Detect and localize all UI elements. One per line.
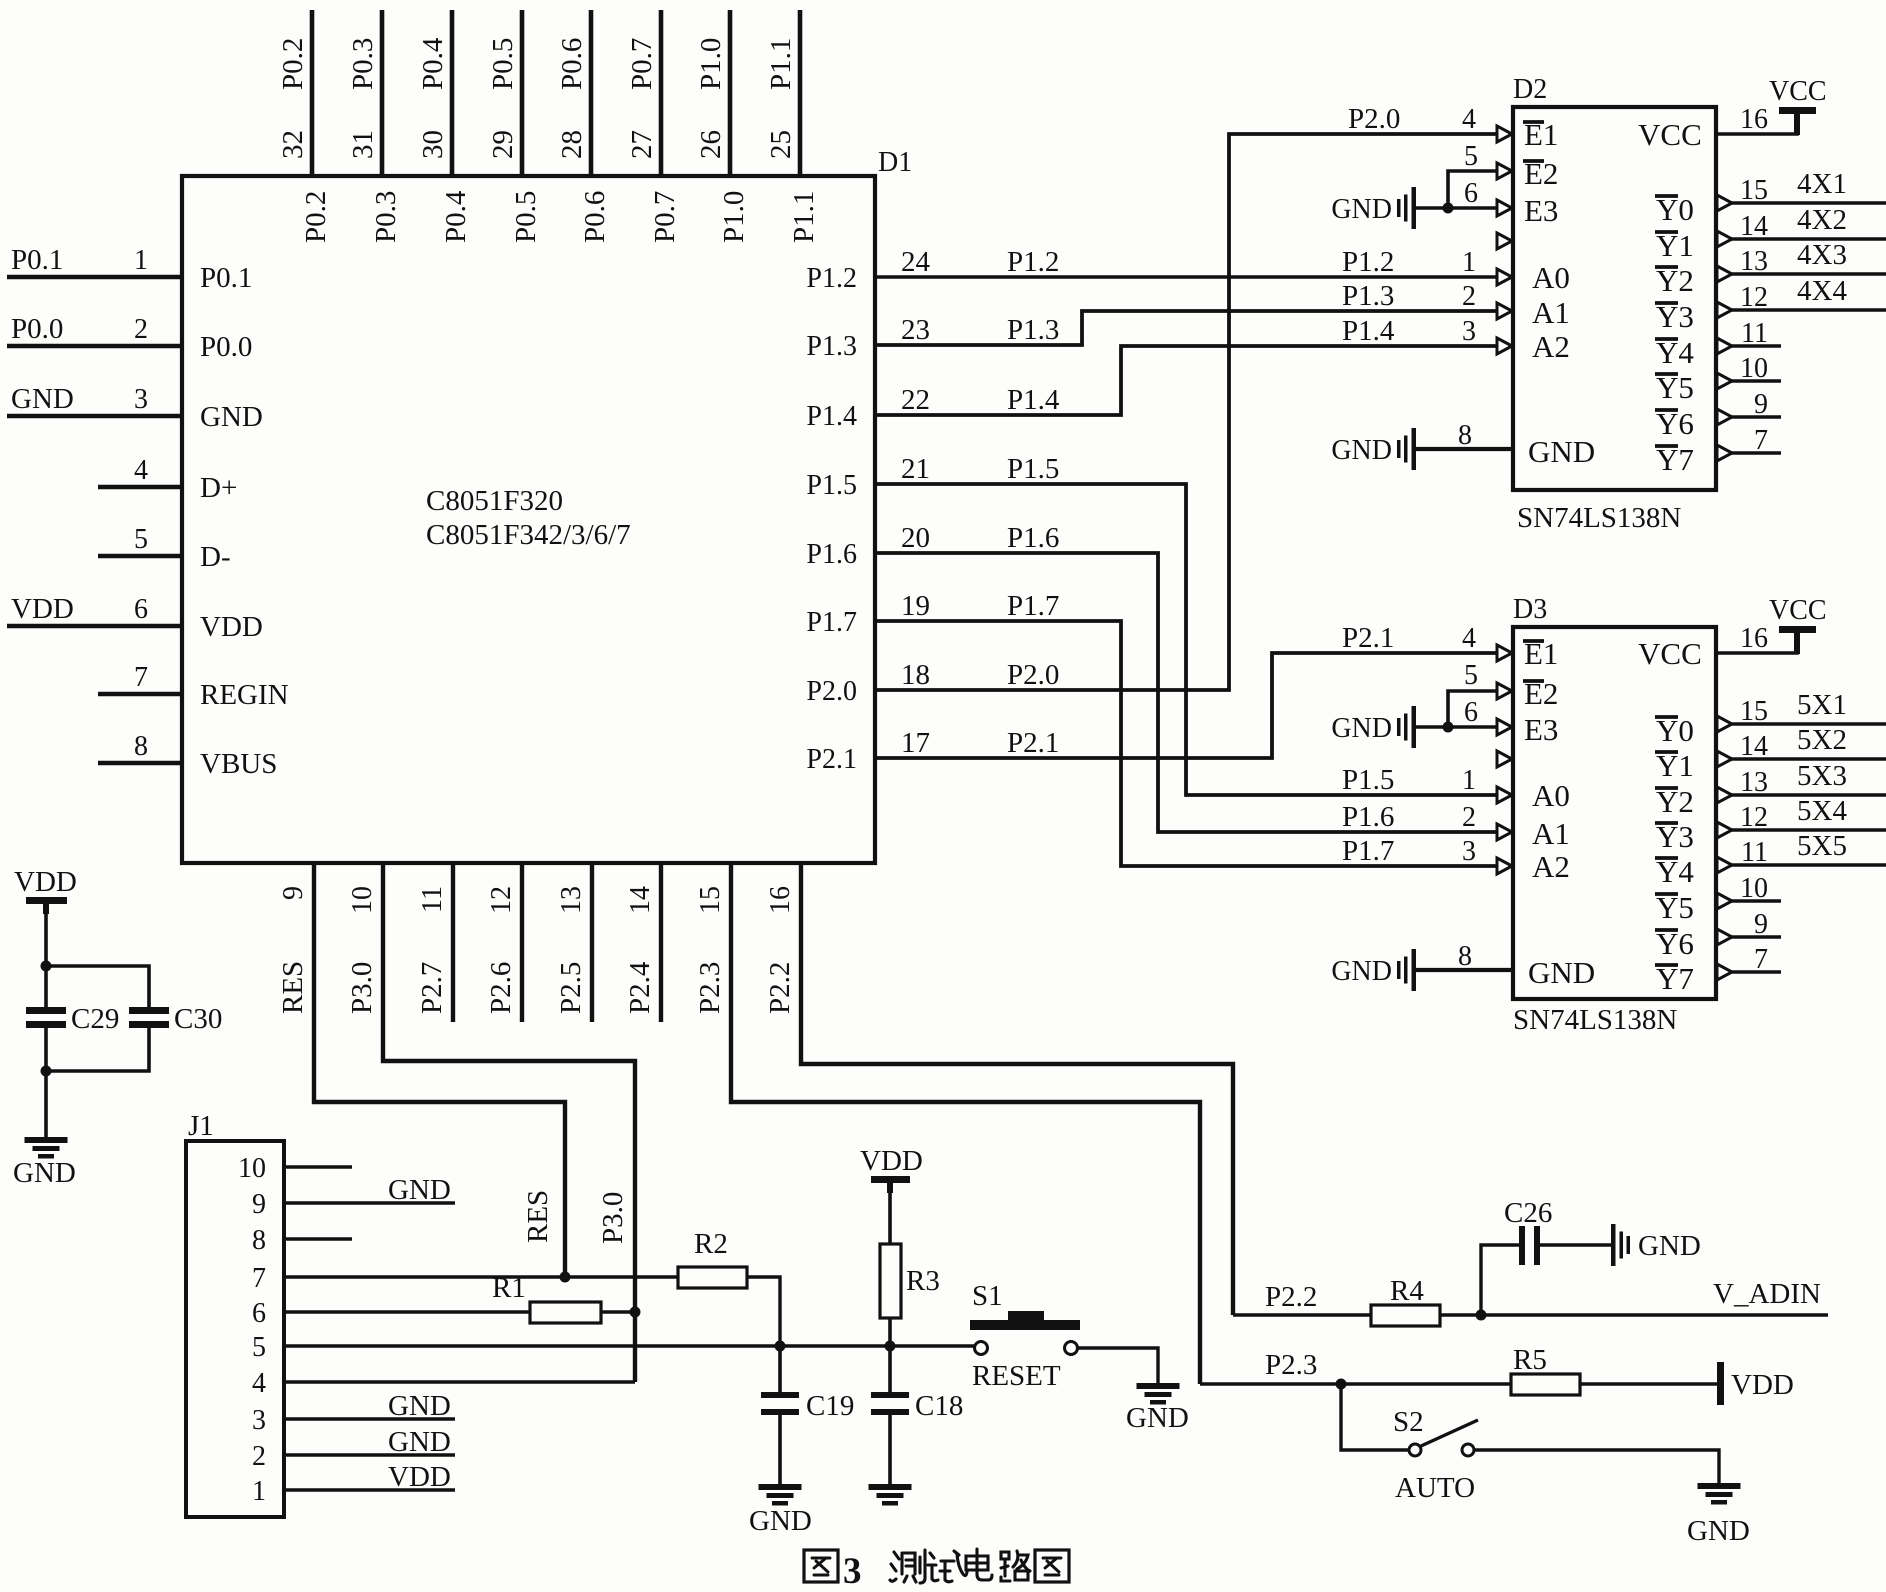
svg-text:P2.3: P2.3 <box>1265 1349 1317 1381</box>
svg-text:5X1: 5X1 <box>1797 689 1847 721</box>
svg-text:4X3: 4X3 <box>1797 239 1847 271</box>
svg-text:26: 26 <box>695 130 727 159</box>
wire D2 output Y6 stub <box>1729 415 1781 419</box>
D2 GND symbol at pin 8 <box>1412 428 1417 470</box>
svg-text:C26: C26 <box>1504 1197 1552 1229</box>
svg-text:A0: A0 <box>1532 260 1570 295</box>
svg-text:5X2: 5X2 <box>1797 724 1847 756</box>
wire net RES (D1 pin9 to J1 pin7) <box>314 863 565 1277</box>
switch S2 right contact <box>1462 1444 1474 1456</box>
wire C29 bottom to GND <box>44 1028 48 1137</box>
svg-text:P0.3: P0.3 <box>370 191 402 243</box>
svg-text:VCC: VCC <box>1769 595 1827 626</box>
VCC symbol at D3 <box>1779 626 1816 633</box>
D1 left pin 1 P0.1 wire <box>7 275 182 280</box>
svg-text:GND: GND <box>1331 194 1392 225</box>
svg-text:GND: GND <box>200 401 263 433</box>
D1 top pin 25 P1.1 wire <box>798 10 803 176</box>
svg-text:4: 4 <box>1462 104 1476 135</box>
switch S1 pushbutton cap <box>970 1320 1080 1330</box>
junction node D3 E2/E3 <box>1443 722 1454 733</box>
svg-text:1: 1 <box>1462 765 1476 796</box>
wire net P1.2 (D1 pin24 to D2 A0) <box>875 275 1497 278</box>
wire D3 output Y3 to 5X <box>1729 828 1886 832</box>
J1 pin 10 stub <box>284 1165 352 1168</box>
wire D2 output Y0 to 4X0 <box>1729 201 1886 205</box>
D2 input triangle E2 <box>1497 163 1512 179</box>
svg-text:31: 31 <box>347 130 379 159</box>
svg-text:P3.0: P3.0 <box>346 962 378 1014</box>
svg-text:D-: D- <box>200 541 231 573</box>
svg-text:GND: GND <box>1638 1230 1701 1262</box>
svg-text:R1: R1 <box>492 1272 526 1304</box>
wire net P1.4 (D1 pin22 to D2 A2) <box>875 346 1497 415</box>
svg-text:A0: A0 <box>1532 778 1570 813</box>
svg-text:P1.5: P1.5 <box>1342 764 1394 796</box>
junction node R3/C18/pin5 <box>885 1341 896 1352</box>
svg-text:P2.2: P2.2 <box>1265 1281 1317 1313</box>
svg-text:15: 15 <box>1740 696 1768 727</box>
svg-text:P2.1: P2.1 <box>806 744 857 775</box>
svg-text:11: 11 <box>1741 837 1768 868</box>
wire C18 top <box>888 1346 892 1393</box>
svg-text:A2: A2 <box>1532 329 1570 364</box>
D1 left pin 5 D- wire <box>98 554 182 559</box>
svg-text:GND: GND <box>388 1390 451 1422</box>
wire S2 branch down <box>1341 1384 1408 1450</box>
svg-text:P1.3: P1.3 <box>1342 280 1394 312</box>
svg-text:GND: GND <box>1528 955 1595 990</box>
svg-text:23: 23 <box>901 314 930 346</box>
D3 output triangle Y3 <box>1717 822 1732 838</box>
svg-text:30: 30 <box>417 130 449 159</box>
D1 top pin 32 P0.2 wire <box>310 10 315 176</box>
D3 input triangle E1 <box>1497 645 1512 661</box>
junction node R1/P3.0 <box>630 1307 641 1318</box>
junction node C29/C30 bottom <box>41 1066 52 1077</box>
svg-text:5: 5 <box>252 1332 266 1363</box>
capacitor C29 <box>26 1007 66 1014</box>
wire R4 to V_ADIN <box>1440 1313 1828 1316</box>
wire D2 VCC pin 16 <box>1716 114 1797 134</box>
D3 output triangle Y4 <box>1717 857 1732 873</box>
svg-text:P1.1: P1.1 <box>765 38 797 90</box>
svg-text:AUTO: AUTO <box>1395 1472 1475 1504</box>
svg-text:GND: GND <box>749 1505 812 1537</box>
wire VDD to C29 <box>44 904 48 1008</box>
svg-text:3: 3 <box>1462 316 1476 347</box>
svg-text:VBUS: VBUS <box>200 748 277 780</box>
svg-text:VDD: VDD <box>11 593 74 625</box>
svg-text:GND: GND <box>1331 956 1392 987</box>
svg-text:10: 10 <box>1740 873 1768 904</box>
svg-text:9: 9 <box>252 1189 266 1220</box>
svg-text:18: 18 <box>901 659 930 691</box>
svg-text:P1.1: P1.1 <box>788 191 820 243</box>
svg-text:D2: D2 <box>1513 74 1547 105</box>
wire D3 E2 jog <box>1448 691 1497 727</box>
svg-text:5: 5 <box>1464 660 1478 691</box>
junction node R2/C19/pin5 <box>775 1341 786 1352</box>
svg-text:11: 11 <box>1741 318 1768 349</box>
svg-text:14: 14 <box>1740 211 1768 242</box>
wire R2 right down to pin5 net <box>747 1277 780 1346</box>
VDD symbol (rotated, at R5) <box>1717 1362 1724 1405</box>
wire VDD to R3 <box>888 1183 892 1244</box>
wire R1 to P3.0 net <box>601 1310 635 1313</box>
wire D2 E2 jog <box>1448 171 1497 208</box>
ground symbol (C26, rotated) <box>1611 1224 1616 1266</box>
svg-text:10: 10 <box>238 1153 266 1184</box>
svg-text:4X2: 4X2 <box>1797 204 1847 236</box>
D2 GND symbol at E2/E3 <box>1412 187 1417 229</box>
svg-text:6: 6 <box>1464 178 1478 209</box>
wire J1 pin 5 row (to S1) <box>284 1344 976 1347</box>
svg-text:P3.0: P3.0 <box>597 1192 629 1244</box>
D1 top pin 27 P0.7 wire <box>659 10 664 176</box>
svg-text:VDD: VDD <box>388 1461 451 1493</box>
svg-text:6: 6 <box>252 1298 266 1329</box>
wire D2 GND pin 8 <box>1415 447 1513 451</box>
svg-text:A1: A1 <box>1532 816 1570 851</box>
D1 bottom stub pin 13 P2.5 <box>590 863 594 1022</box>
svg-text:C19: C19 <box>806 1390 854 1422</box>
svg-text:RES: RES <box>277 961 309 1014</box>
svg-text:22: 22 <box>901 384 930 416</box>
svg-text:P1.5: P1.5 <box>806 470 857 501</box>
svg-text:P1.4: P1.4 <box>1007 384 1060 416</box>
J1 pin 3 stub to GND <box>284 1417 455 1420</box>
svg-text:7: 7 <box>134 662 148 693</box>
svg-text:21: 21 <box>901 453 930 485</box>
switch S2 arm <box>1421 1420 1478 1446</box>
wire net P2.1 (D1 pin17 to D3 E1) <box>875 653 1497 758</box>
svg-text:P0.6: P0.6 <box>579 191 611 243</box>
wire P2.2 to R4 <box>1233 1313 1371 1316</box>
D1 bottom stub pin 14 P2.4 <box>659 863 663 1022</box>
svg-text:GND: GND <box>1528 434 1595 469</box>
wire J1 pin 7 row (RES net to R2) <box>284 1275 678 1278</box>
svg-text:P0.2: P0.2 <box>300 191 332 243</box>
svg-text:15: 15 <box>695 886 726 914</box>
wire net P1.7 (D1 pin19 to D3 A2) <box>875 621 1497 866</box>
svg-text:3: 3 <box>252 1405 266 1436</box>
svg-text:E3: E3 <box>1524 193 1558 228</box>
svg-text:A2: A2 <box>1532 849 1570 884</box>
svg-text:P2.6: P2.6 <box>485 962 517 1014</box>
svg-text:C8051F342/3/6/7: C8051F342/3/6/7 <box>426 519 631 551</box>
svg-text:8: 8 <box>1458 941 1472 972</box>
svg-text:4: 4 <box>252 1368 266 1399</box>
svg-text:9: 9 <box>278 886 309 900</box>
svg-text:P2.7: P2.7 <box>416 962 448 1014</box>
svg-text:P0.7: P0.7 <box>626 38 658 90</box>
svg-text:P1.7: P1.7 <box>1342 835 1394 867</box>
D1 top pin 28 P0.6 wire <box>589 10 594 176</box>
wire D2 output Y7 stub <box>1729 451 1781 455</box>
svg-text:P0.0: P0.0 <box>200 331 252 363</box>
D1 top pin 30 P0.4 wire <box>450 10 455 176</box>
svg-text:4X4: 4X4 <box>1797 275 1847 307</box>
wire net P3.0 (D1 pin10 to J1 pin4) <box>383 863 635 1382</box>
svg-text:GND: GND <box>388 1426 451 1458</box>
svg-text:C18: C18 <box>915 1390 963 1422</box>
D2 output triangle Y1 <box>1717 231 1732 247</box>
IC D3 SN74LS138N body <box>1513 627 1716 999</box>
wire D3 GND pin 8 <box>1415 968 1513 972</box>
svg-text:14: 14 <box>1740 731 1768 762</box>
svg-text:P2.1: P2.1 <box>1007 727 1059 759</box>
svg-text:12: 12 <box>486 886 517 914</box>
svg-text:6: 6 <box>1464 697 1478 728</box>
wire D2 output Y3 to 4X3 <box>1729 308 1886 312</box>
svg-text:C8051F320: C8051F320 <box>426 485 563 517</box>
svg-text:P0.1: P0.1 <box>11 244 63 276</box>
svg-text:2: 2 <box>252 1441 266 1472</box>
D1 bottom stub pin 12 P2.6 <box>520 863 524 1022</box>
svg-text:14: 14 <box>625 886 656 914</box>
D3 GND symbol at pin 8 <box>1412 949 1417 991</box>
svg-text:GND: GND <box>1331 713 1392 744</box>
wire C19 top <box>778 1346 782 1393</box>
switch S1 left contact <box>975 1342 988 1355</box>
svg-text:P2.0: P2.0 <box>1348 103 1400 135</box>
wire D2 output Y4 stub <box>1729 344 1781 348</box>
svg-text:7: 7 <box>1754 425 1768 456</box>
wire C26 to GND <box>1540 1243 1612 1246</box>
wire C18 bottom <box>888 1415 892 1484</box>
wire D3 E3 from GND <box>1415 725 1497 729</box>
ground symbol (top-left GND) <box>25 1137 68 1143</box>
VCC symbol at D2 <box>1779 107 1816 114</box>
svg-text:P1.3: P1.3 <box>1007 314 1059 346</box>
svg-text:7: 7 <box>1754 944 1768 975</box>
D2 input triangle NC <box>1497 233 1512 249</box>
svg-text:P2.4: P2.4 <box>624 961 656 1014</box>
switch S1 right contact <box>1065 1342 1078 1355</box>
D2 input triangle E1 <box>1497 126 1512 142</box>
wire net P1.5 (D1 pin21 to D3 A0) <box>875 484 1497 795</box>
svg-text:P2.5: P2.5 <box>555 962 587 1014</box>
svg-text:P1.0: P1.0 <box>695 38 727 90</box>
svg-text:12: 12 <box>1740 802 1768 833</box>
svg-text:16: 16 <box>765 886 796 914</box>
D2 output triangle Y3 <box>1717 302 1732 318</box>
wire D3 output Y5 stub <box>1729 899 1781 903</box>
wire R5 to VDD <box>1580 1382 1717 1385</box>
ground symbol (S1) <box>1137 1383 1180 1389</box>
svg-text:VCC: VCC <box>1638 636 1702 671</box>
svg-text:1: 1 <box>134 245 148 276</box>
svg-text:19: 19 <box>901 590 930 622</box>
D2 output triangle Y2 <box>1717 266 1732 282</box>
D3 GND symbol at E2/E3 <box>1412 706 1417 748</box>
wire P2.3 row to R5 <box>1200 1382 1511 1385</box>
D1 bottom stub pin 11 P2.7 <box>451 863 455 1022</box>
wire S2 to GND <box>1474 1450 1719 1483</box>
wire C26 branch <box>1481 1245 1519 1315</box>
D3 input triangle A2 <box>1497 858 1512 874</box>
ground symbol (C19) <box>759 1484 802 1490</box>
svg-text:REGIN: REGIN <box>200 679 289 711</box>
svg-text:D3: D3 <box>1513 594 1547 625</box>
svg-text:VDD: VDD <box>860 1145 923 1177</box>
capacitor C30 <box>129 1007 169 1014</box>
svg-text:25: 25 <box>765 130 797 159</box>
svg-text:2: 2 <box>1462 802 1476 833</box>
svg-text:13: 13 <box>1740 767 1768 798</box>
resistor R1 <box>530 1302 601 1323</box>
svg-text:VCC: VCC <box>1769 76 1827 107</box>
svg-text:GND: GND <box>1126 1402 1189 1434</box>
wire net P1.3 (D1 pin23 to D2 A1) <box>875 311 1497 345</box>
svg-text:P1.6: P1.6 <box>1342 801 1394 833</box>
wire C30 top branch <box>46 966 149 1008</box>
svg-text:P2.2: P2.2 <box>764 962 796 1014</box>
svg-text:8: 8 <box>1458 420 1472 451</box>
J1 pin 1 stub to VDD <box>284 1488 455 1491</box>
IC D2 SN74LS138N body <box>1513 107 1716 490</box>
svg-text:VDD: VDD <box>1731 1369 1794 1401</box>
svg-text:29: 29 <box>487 130 519 159</box>
capacitor C18 <box>871 1392 909 1398</box>
svg-text:P2.0: P2.0 <box>806 676 857 707</box>
svg-text:15: 15 <box>1740 175 1768 206</box>
svg-text:13: 13 <box>556 886 587 914</box>
D3 input triangle E3 <box>1497 719 1512 735</box>
resistor R3 (vertical) <box>880 1244 901 1318</box>
D1 left pin 7 REGIN wire <box>98 692 182 697</box>
svg-text:17: 17 <box>901 727 930 759</box>
D2 input triangle A0 <box>1497 269 1512 285</box>
svg-text:5: 5 <box>134 524 148 555</box>
switch S2 left contact <box>1409 1444 1421 1456</box>
svg-text:3: 3 <box>134 384 148 415</box>
wire D3 output Y4 to 5X <box>1729 863 1886 867</box>
svg-text:P0.4: P0.4 <box>417 37 449 90</box>
svg-text:P0.1: P0.1 <box>200 262 252 294</box>
J1 pin 9 stub to GND <box>284 1201 455 1204</box>
capacitor C26 <box>1519 1226 1525 1265</box>
wire net P2.2 (D1 pin16 to R4) <box>801 863 1233 1315</box>
D2 output triangle Y6 <box>1717 409 1732 425</box>
svg-text:5X4: 5X4 <box>1797 795 1847 827</box>
svg-text:8: 8 <box>134 731 148 762</box>
svg-text:8: 8 <box>252 1225 266 1256</box>
svg-text:P1.5: P1.5 <box>1007 453 1059 485</box>
svg-text:P0.0: P0.0 <box>11 313 63 345</box>
svg-text:P0.6: P0.6 <box>556 38 588 90</box>
resistor R2 <box>678 1267 747 1288</box>
D1 top pin 29 P0.5 wire <box>520 10 525 176</box>
wire D2 output Y5 stub <box>1729 379 1781 383</box>
D3 input triangle A0 <box>1497 787 1512 803</box>
caption 图3 测试电路图 <box>804 1550 838 1582</box>
svg-text:P1.2: P1.2 <box>1007 246 1059 278</box>
svg-text:P1.6: P1.6 <box>1007 522 1059 554</box>
wire D3 output Y1 to 5X <box>1729 757 1886 761</box>
D3 input triangle A1 <box>1497 824 1512 840</box>
ground symbol (S2) <box>1698 1483 1741 1489</box>
junction node R4/C26 <box>1476 1310 1487 1321</box>
svg-text:4: 4 <box>1462 623 1476 654</box>
junction node D2 E2/E3 <box>1443 203 1454 214</box>
svg-text:5X5: 5X5 <box>1797 830 1847 862</box>
junction node P2.3/S2 <box>1336 1379 1347 1390</box>
D1 left pin 3 GND wire <box>7 414 182 419</box>
svg-text:2: 2 <box>1462 281 1476 312</box>
svg-text:VCC: VCC <box>1638 117 1702 152</box>
D3 output triangle Y5 <box>1717 893 1732 909</box>
wire D3 VCC pin 16 <box>1716 633 1797 653</box>
wire J1 pin 4 row (P3.0) <box>284 1380 635 1383</box>
VDD symbol (top-left) <box>26 897 67 904</box>
svg-text:6: 6 <box>134 594 148 625</box>
svg-text:P2.3: P2.3 <box>694 962 726 1014</box>
svg-text:V_ADIN: V_ADIN <box>1713 1278 1821 1310</box>
wire S1 to GND <box>1078 1348 1158 1383</box>
svg-text:20: 20 <box>901 522 930 554</box>
svg-text:VDD: VDD <box>200 611 263 643</box>
svg-text:10: 10 <box>347 886 378 914</box>
wire R3 to pin5 net <box>888 1318 892 1346</box>
svg-text:GND: GND <box>11 383 74 415</box>
svg-text:P0.5: P0.5 <box>487 38 519 90</box>
svg-text:SN74LS138N: SN74LS138N <box>1513 1004 1677 1036</box>
svg-text:1: 1 <box>252 1476 266 1507</box>
D3 output triangle Y6 <box>1717 929 1732 945</box>
wire D3 output Y6 stub <box>1729 935 1781 939</box>
svg-text:5: 5 <box>1464 141 1478 172</box>
svg-text:P0.7: P0.7 <box>649 191 681 243</box>
svg-text:3: 3 <box>1462 836 1476 867</box>
svg-text:3: 3 <box>843 1551 862 1592</box>
svg-text:VDD: VDD <box>14 866 77 898</box>
D2 output triangle Y5 <box>1717 373 1732 389</box>
svg-text:P1.4: P1.4 <box>1342 315 1395 347</box>
D3 output triangle Y0 <box>1717 716 1732 732</box>
svg-text:C30: C30 <box>174 1003 222 1035</box>
wire D3 output Y7 stub <box>1729 970 1781 974</box>
svg-text:RES: RES <box>522 1190 554 1243</box>
svg-text:P2.1: P2.1 <box>1342 622 1394 654</box>
D3 output triangle Y7 <box>1717 964 1732 980</box>
svg-text:P1.2: P1.2 <box>1342 246 1394 278</box>
svg-text:D1: D1 <box>878 147 912 178</box>
svg-text:P1.7: P1.7 <box>806 607 857 638</box>
D2 output triangle Y4 <box>1717 338 1732 354</box>
D1 top pin 26 P1.0 wire <box>728 10 733 176</box>
wire D2 E3 from GND <box>1415 206 1497 210</box>
svg-text:C29: C29 <box>71 1003 119 1035</box>
svg-text:P0.4: P0.4 <box>440 190 472 243</box>
svg-text:R2: R2 <box>694 1228 728 1260</box>
svg-text:E3: E3 <box>1524 712 1558 747</box>
svg-text:16: 16 <box>1740 623 1768 654</box>
svg-text:GND: GND <box>1687 1515 1750 1547</box>
wire C30 bottom branch <box>46 1028 149 1071</box>
svg-text:S2: S2 <box>1393 1406 1424 1438</box>
J1 pin 2 stub to GND <box>284 1453 455 1456</box>
svg-text:9: 9 <box>1754 909 1768 940</box>
svg-text:RESET: RESET <box>972 1360 1061 1392</box>
wire D2 output Y1 to 4X1 <box>1729 237 1886 241</box>
svg-text:11: 11 <box>417 886 448 913</box>
junction node RES/J1.7 <box>560 1272 571 1283</box>
D2 output triangle Y7 <box>1717 445 1732 461</box>
svg-text:P1.2: P1.2 <box>806 263 857 294</box>
D1 left pin 2 P0.0 wire <box>7 344 182 349</box>
